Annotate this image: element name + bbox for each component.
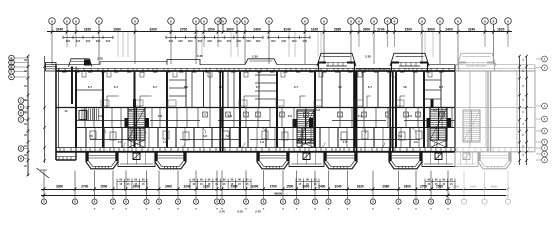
bay window 4 [324,152,357,169]
stair core unit1 [128,108,145,141]
svg-text:900: 900 [271,39,276,43]
svg-text:2.6: 2.6 [288,114,293,118]
bottom notes [94,208,449,213]
svg-text:2980: 2980 [113,27,121,31]
top facade band [56,68,455,71]
svg-text:1620: 1620 [497,27,505,31]
svg-text:6.7: 6.7 [153,85,158,89]
svg-text:3240: 3240 [334,185,341,189]
building outer left wing walls [56,65,76,160]
interior walls vertical [76,65,455,152]
svg-text:2980: 2980 [382,185,389,189]
svg-text:3900: 3900 [427,27,435,31]
svg-text:900: 900 [66,39,71,43]
svg-text:900: 900 [237,39,242,43]
svg-text:7.8: 7.8 [398,134,403,138]
svg-text:4.2: 4.2 [433,108,438,112]
svg-text:3300: 3300 [251,185,258,189]
stair hall unit1 [128,140,145,148]
svg-text:3240: 3240 [468,27,476,31]
canopy over stairwell unit2 [317,53,356,71]
svg-text:3240: 3240 [56,27,64,31]
extra top-room partitions [169,71,441,108]
svg-text:2.35: 2.35 [197,54,203,58]
svg-text:6.6: 6.6 [203,134,208,138]
svg-text:6.7: 6.7 [256,85,261,89]
svg-text:1500: 1500 [207,27,215,31]
svg-text:2.40: 2.40 [255,210,261,214]
parapet step 167-200 [167,60,200,65]
svg-text:900: 900 [246,39,251,43]
svg-text:2400: 2400 [318,185,325,189]
svg-text:2700: 2700 [180,27,188,31]
svg-text:B: B [11,70,13,74]
svg-text:1620: 1620 [470,185,477,189]
room inner sub-partitions [107,96,405,108]
bottom sub-dimension clusters [117,179,455,190]
interior walls horizontal [56,108,455,140]
svg-text:3300: 3300 [363,27,371,31]
top secondary dimension row [63,36,310,43]
svg-text:7.8: 7.8 [163,140,168,144]
svg-text:900: 900 [169,39,174,43]
svg-text:900: 900 [292,39,297,43]
svg-text:900: 900 [198,39,203,43]
svg-text:C: C [20,118,22,122]
svg-text:1.6: 1.6 [260,140,265,144]
bottom facade band [56,148,455,152]
top main dimension line [47,27,512,33]
svg-text:3300: 3300 [149,27,157,31]
svg-text:3.6: 3.6 [298,140,303,144]
top facade window ticks [59,68,449,71]
svg-text:900: 900 [282,39,287,43]
svg-text:2980: 2980 [453,185,460,189]
svg-text:3240: 3240 [283,27,291,31]
svg-text:900: 900 [86,39,91,43]
svg-text:1620: 1620 [357,185,364,189]
svg-text:2.40: 2.40 [219,210,225,214]
top grid axis bubbles row [49,18,512,32]
svg-text:900: 900 [106,39,111,43]
svg-text:2.4: 2.4 [358,114,363,118]
svg-text:900: 900 [96,39,101,43]
svg-text:900: 900 [188,39,193,43]
bottom facade window ticks [60,148,451,152]
left dimension lines [24,55,49,178]
ghost mirrored unit right [455,65,535,169]
svg-text:900: 900 [303,39,308,43]
svg-text:2400: 2400 [445,27,453,31]
top bay window left [69,59,93,67]
svg-text:1620: 1620 [311,27,319,31]
svg-text:2400: 2400 [253,27,261,31]
left end entrance steps [46,63,57,72]
svg-text:B: B [11,75,13,79]
svg-text:6.6: 6.6 [226,134,231,138]
svg-text:D: D [20,157,22,161]
bottom extension lines [44,171,508,199]
svg-text:49800: 49800 [274,191,283,195]
svg-text:4.2: 4.2 [128,108,133,112]
svg-text:2.6: 2.6 [408,114,413,118]
top parapet lines [51,62,457,69]
bay window 1 [86,152,118,169]
fixtures [82,72,445,141]
svg-text:3900: 3900 [226,27,234,31]
left wing thick wall and wall piers [56,67,451,161]
svg-text:C: C [20,105,22,109]
svg-text:2700: 2700 [377,27,385,31]
svg-text:4.2: 4.2 [316,108,321,112]
svg-text:2400: 2400 [165,185,172,189]
svg-text:900: 900 [227,39,232,43]
svg-text:6.0: 6.0 [184,85,189,89]
svg-text:F8: F8 [89,134,93,138]
svg-text:1620: 1620 [84,27,92,31]
stair core unit3 [430,108,447,141]
svg-text:2.0: 2.0 [414,140,419,144]
svg-text:6.7: 6.7 [294,85,299,89]
svg-text:6.7: 6.7 [368,85,373,89]
top grid lines into plan [52,32,508,64]
svg-text:2700: 2700 [81,185,88,189]
svg-text:900: 900 [256,39,261,43]
canopy over stairwell unit3 [390,53,429,71]
right grid bubbles column [536,56,547,163]
svg-text:2.35: 2.35 [252,55,258,59]
svg-text:1500: 1500 [100,185,107,189]
svg-text:2.35: 2.35 [97,57,103,61]
entrance porch 3 [422,152,455,167]
svg-text:900: 900 [217,39,222,43]
left wing stair [79,109,99,121]
svg-text:3300: 3300 [404,185,411,189]
small canopy mid-left [245,59,277,65]
svg-text:6.7: 6.7 [88,85,93,89]
bay window 5 [389,152,422,169]
svg-text:1500: 1500 [286,185,293,189]
svg-text:2980: 2980 [334,27,342,31]
svg-text:900: 900 [178,39,183,43]
svg-text:2.2: 2.2 [98,114,103,118]
svg-text:6.7: 6.7 [439,85,444,89]
svg-text:3240: 3240 [183,185,190,189]
svg-text:2700: 2700 [270,185,277,189]
svg-text:1.8: 1.8 [343,140,348,144]
stair core unit2 [297,110,314,143]
svg-text:2.4: 2.4 [228,114,233,118]
svg-text:C: C [20,111,22,115]
right dimension lines [518,55,528,165]
svg-text:900: 900 [76,39,81,43]
bay window 2 [155,152,186,169]
svg-text:6.00: 6.00 [237,210,243,214]
svg-text:6.7: 6.7 [114,85,119,89]
window sill dashes [62,71,444,73]
expansion joint double walls [220,71,490,152]
interior partitions texture [85,108,452,148]
svg-text:6.6: 6.6 [219,85,224,89]
svg-text:1500: 1500 [405,27,413,31]
stair hall unit2 [297,140,314,148]
left grid axis bubbles [9,55,28,161]
svg-text:3300: 3300 [56,185,63,189]
svg-text:2.35: 2.35 [365,55,371,59]
svg-text:2700: 2700 [420,185,427,189]
svg-text:2980: 2980 [491,185,498,189]
entrance porch 1 [118,152,155,167]
svg-text:D: D [20,147,22,151]
bottom grid bubbles [41,199,510,204]
svg-text:1#: 1# [64,109,68,113]
entrance porch 2 [289,152,324,167]
bottom dimension lines [41,185,509,197]
svg-text:2.0: 2.0 [118,140,123,144]
svg-text:2.6: 2.6 [158,114,163,118]
svg-text:900: 900 [207,39,212,43]
bay window 3 [257,152,289,169]
room labels [64,85,443,144]
svg-text:C: C [20,99,22,103]
small facade labels [97,54,371,61]
canopy over stairwell ghost [457,53,496,71]
stair hall unit3 [430,140,447,148]
